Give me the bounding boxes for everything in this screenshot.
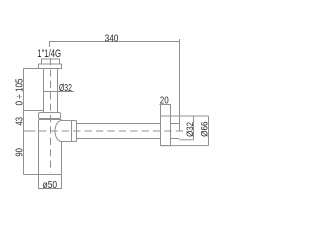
svg-text:90: 90: [15, 148, 26, 157]
right extension line top: [161, 115, 209, 117]
horizontal outlet pipe bottom: [77, 138, 161, 140]
elbow boss top: [62, 120, 77, 122]
pipe joint / leader line for Ø32 label: [44, 91, 75, 93]
vertical centerline: [50, 58, 52, 173]
svg-text:ø50: ø50: [43, 179, 58, 191]
body cup bottom edge: [39, 174, 62, 176]
svg-text:43: 43: [15, 117, 26, 126]
Ø50 dimension extension lines: [38, 175, 40, 189]
threaded collar: [42, 59, 60, 64]
right extension line bottom: [161, 145, 209, 147]
svg-text:Ø32: Ø32: [59, 83, 72, 94]
svg-text:1"1/4G: 1"1/4G: [37, 48, 61, 60]
body cup right edge: [61, 142, 63, 175]
lower nut: [39, 113, 61, 119]
dimension 20: [161, 105, 171, 117]
body cup top edge: [39, 119, 62, 121]
horizontal centerline: [39, 130, 184, 132]
tick at body bottom: [24, 174, 39, 176]
body cup left edge: [38, 120, 40, 175]
tick at nut underside: [24, 68, 44, 70]
elbow boss arc: [55, 121, 61, 142]
elbow boss bottom: [62, 141, 77, 143]
svg-text:20: 20: [160, 95, 169, 107]
wall rosette: [161, 116, 171, 146]
elbow nut lines: [71, 121, 73, 142]
Ø32 right dimension line: [193, 116, 195, 140]
svg-text:0 ÷ 105: 0 ÷ 105: [15, 78, 26, 105]
tick at lower nut top: [24, 110, 44, 112]
Ø66 dimension line: [208, 116, 210, 146]
horizontal outlet pipe top: [77, 123, 161, 125]
svg-text:Ø32: Ø32: [185, 122, 196, 137]
svg-text:Ø66: Ø66: [200, 121, 211, 137]
dimension 340 line: [50, 42, 180, 48]
left dimension line: [23, 69, 25, 175]
upper nut: [39, 64, 62, 69]
Ø50 dimension line: [38, 188, 62, 190]
wall extension line: [179, 39, 181, 132]
inlet pipe: [43, 69, 45, 113]
svg-text:340: 340: [105, 32, 119, 44]
tick at centerline: [24, 130, 36, 132]
